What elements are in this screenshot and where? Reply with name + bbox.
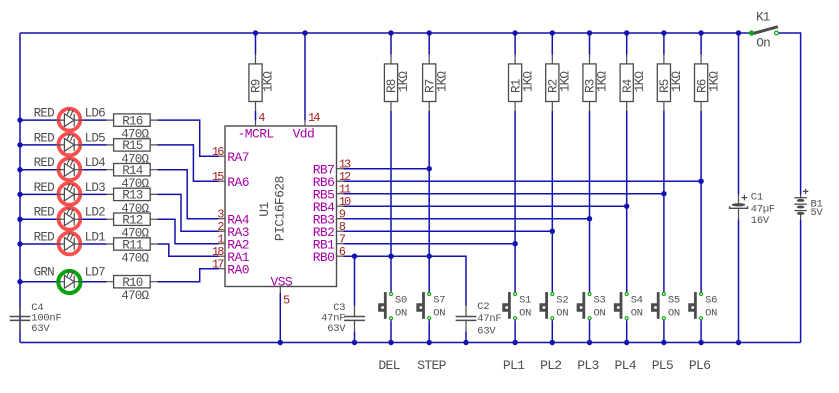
svg-text:63V: 63V: [477, 325, 496, 337]
svg-text:ON: ON: [705, 308, 717, 320]
LED LD6: [57, 108, 83, 130]
svg-text:1KΩ: 1KΩ: [521, 71, 535, 93]
svg-text:LD1: LD1: [85, 230, 106, 244]
svg-text:RED: RED: [34, 156, 55, 170]
svg-text:15: 15: [212, 170, 224, 184]
resistor R3 1K: [583, 55, 610, 111]
op IC U1 PIC16F628 body: [225, 126, 337, 287]
svg-text:VSS: VSS: [271, 274, 293, 289]
switch S3: [578, 292, 605, 320]
wire LED row LD3 to resistor R13: [83, 193, 107, 195]
svg-text:1KΩ: 1KΩ: [262, 71, 276, 93]
wire LED row LD2 left segment: [20, 218, 57, 220]
svg-text:14: 14: [308, 111, 320, 125]
svg-text:C1: C1: [751, 192, 763, 204]
svg-text:RED: RED: [34, 206, 55, 220]
svg-text:S6: S6: [705, 295, 717, 307]
svg-text:1KΩ: 1KΩ: [633, 71, 647, 93]
svg-text:1KΩ: 1KΩ: [397, 71, 411, 93]
svg-text:ON: ON: [395, 308, 407, 320]
svg-text:6: 6: [339, 245, 346, 259]
svg-text:5V: 5V: [811, 207, 824, 219]
wire below switch S3 to ground rail: [589, 320, 591, 342]
wire R16 to chip pin 16: [157, 120, 218, 156]
resistor R13 470R: [107, 188, 158, 216]
svg-text:S3: S3: [594, 295, 606, 307]
battery B1 5V: [794, 189, 823, 220]
svg-text:LD7: LD7: [85, 266, 106, 280]
svg-text:RA0: RA0: [227, 262, 249, 277]
wire R3 column: [589, 33, 591, 292]
switch K1: [749, 11, 778, 51]
svg-text:470Ω: 470Ω: [121, 251, 149, 265]
svg-text:R10: R10: [122, 276, 143, 290]
svg-text:S2: S2: [556, 295, 568, 307]
wire R1 column: [514, 33, 516, 292]
wire LED row LD4 left segment: [20, 169, 57, 171]
junction dots on top rail: [253, 30, 258, 35]
wire right rail from K1 to battery to ground: [779, 33, 801, 343]
svg-text:63V: 63V: [327, 323, 346, 335]
resistor R9 1K: [249, 55, 276, 111]
svg-text:63V: 63V: [31, 323, 50, 335]
switch S2: [541, 292, 568, 320]
svg-text:LD4: LD4: [85, 156, 106, 170]
LED LD3: [57, 183, 83, 205]
svg-text:PL4: PL4: [615, 358, 637, 373]
capacitor C3 47nF: [321, 302, 365, 335]
switch S6: [690, 292, 717, 320]
wire R8 column: [390, 33, 392, 292]
svg-text:R15: R15: [122, 139, 143, 153]
pin stubs right: [337, 168, 344, 170]
wire top +5V rail: [20, 32, 751, 34]
switch S0: [380, 292, 407, 320]
svg-text:47nF: 47nF: [477, 313, 501, 325]
wire C1 column: [738, 33, 740, 343]
resistor R16 470R: [107, 114, 158, 142]
wire R13 to chip pin 2: [157, 194, 218, 231]
svg-text:47µF: 47µF: [751, 203, 775, 215]
wire R10 to chip pin 17: [157, 269, 218, 282]
LED LD4: [57, 158, 83, 180]
svg-text:1KΩ: 1KΩ: [435, 71, 449, 93]
switch S1: [504, 292, 531, 320]
wire LED row LD2 to resistor R12: [83, 218, 107, 220]
svg-text:STEP: STEP: [417, 358, 446, 373]
wire below switch S0 to ground rail: [390, 320, 392, 342]
svg-text:RED: RED: [34, 230, 55, 244]
junction dot RB7 at R7 column: [427, 166, 432, 171]
svg-text:LD3: LD3: [85, 181, 106, 195]
wire VSS pin 5 to ground rail: [279, 293, 281, 343]
junction dots RB6..RB1 at resistor columns: [698, 179, 703, 184]
wire C3 column from RB0 net to ground: [354, 256, 356, 342]
resistor R2 1K: [546, 55, 573, 111]
svg-text:S4: S4: [631, 295, 643, 307]
svg-text:1KΩ: 1KΩ: [596, 71, 610, 93]
resistor R8 1K: [384, 55, 411, 111]
LED LD5: [57, 133, 83, 155]
svg-text:PIC16F628: PIC16F628: [273, 176, 288, 241]
wire R9 column to -MCRL pin 4: [255, 33, 257, 121]
wire net RB5 from pin 11: [343, 193, 664, 195]
wire net RB0 from pin 6 to C2: [343, 256, 466, 306]
junction dots on RB0 net: [352, 254, 357, 259]
svg-text:GRN: GRN: [34, 266, 55, 280]
resistor R15 470R: [107, 139, 158, 167]
wire below switch S5 to ground rail: [663, 320, 665, 342]
wire net RB1 from pin 7: [343, 243, 515, 245]
wire below switch S2 to ground rail: [551, 320, 553, 342]
resistor R4 1K: [620, 55, 647, 111]
junction dots on left rail (LED rows): [17, 117, 22, 122]
svg-text:RED: RED: [34, 181, 55, 195]
wire C2 column lower: [465, 331, 467, 342]
wire LED row LD1 left segment: [20, 243, 57, 245]
pin stubs left: [219, 155, 226, 157]
wire left power rail: [19, 33, 21, 343]
svg-text:S1: S1: [519, 295, 531, 307]
svg-text:R11: R11: [122, 238, 143, 252]
resistor R6 1K: [695, 55, 722, 111]
wire LED row LD6 to resistor R16: [83, 119, 107, 121]
wire below switch S7 to ground rail: [428, 320, 430, 342]
wire net RB4 from pin 10: [343, 205, 626, 207]
svg-text:PL2: PL2: [540, 358, 561, 373]
switch S5: [653, 292, 680, 320]
resistor R10 470R: [107, 276, 158, 304]
svg-text:S7: S7: [433, 295, 445, 307]
svg-text:PL6: PL6: [689, 358, 710, 373]
wire R4 column: [626, 33, 628, 292]
svg-text:16: 16: [212, 145, 224, 159]
resistor R1 1K: [509, 55, 536, 111]
resistor R14 470R: [107, 164, 158, 192]
capacitor C2 47nF: [456, 301, 502, 337]
svg-text:K1: K1: [756, 11, 770, 25]
svg-text:R12: R12: [122, 214, 143, 228]
svg-text:17: 17: [212, 258, 224, 272]
svg-text:S0: S0: [395, 295, 407, 307]
svg-text:C2: C2: [477, 301, 489, 313]
pin stub 4 -MCRL: [255, 121, 257, 127]
LED LD1: [57, 232, 83, 254]
svg-text:16V: 16V: [751, 215, 770, 227]
LED LD7: [57, 270, 83, 293]
svg-text:S5: S5: [668, 295, 680, 307]
svg-text:LD5: LD5: [85, 131, 106, 145]
wire R7 column: [428, 33, 430, 292]
svg-text:LD6: LD6: [85, 107, 106, 121]
svg-text:PL3: PL3: [577, 358, 599, 373]
wire R11 to chip pin 18: [157, 244, 218, 256]
resistor R7 1K: [423, 55, 450, 111]
wire R12 to chip pin 1: [157, 219, 218, 244]
wire net RB7 from pin 13: [343, 168, 429, 170]
svg-text:-MCRL: -MCRL: [238, 127, 274, 142]
wire LED row LD4 to resistor R14: [83, 169, 107, 171]
svg-text:R13: R13: [122, 189, 143, 203]
resistor R5 1K: [657, 55, 684, 111]
wire below switch S6 to ground rail: [700, 320, 702, 342]
pin stub 5 VSS: [279, 287, 281, 294]
svg-text:PL5: PL5: [652, 358, 674, 373]
wire LED row LD5 to resistor R15: [83, 144, 107, 146]
wire net RB6 from pin 12: [343, 180, 701, 182]
wire R6 column: [700, 33, 702, 292]
svg-text:DEL: DEL: [378, 358, 400, 373]
svg-text:1KΩ: 1KΩ: [670, 71, 684, 93]
svg-text:RA6: RA6: [227, 175, 249, 190]
svg-text:RA7: RA7: [227, 150, 249, 165]
svg-text:PL1: PL1: [503, 358, 525, 373]
svg-text:1KΩ: 1KΩ: [707, 71, 721, 93]
capacitor C1 47uF polarized: [730, 192, 775, 227]
wire LED row LD7 left segment: [20, 281, 57, 283]
wire LED row LD3 left segment: [20, 193, 57, 195]
svg-text:RED: RED: [34, 107, 55, 121]
svg-text:LD2: LD2: [85, 206, 106, 220]
svg-text:ON: ON: [433, 308, 445, 320]
svg-text:4: 4: [258, 111, 265, 125]
svg-text:RED: RED: [34, 131, 55, 145]
svg-text:5: 5: [283, 293, 290, 307]
capacitor C4 100nF: [10, 302, 62, 335]
wire R2 column: [551, 33, 553, 292]
wire below switch S4 to ground rail: [626, 320, 628, 342]
wire LED row LD6 left segment: [20, 119, 57, 121]
svg-text:ON: ON: [594, 308, 606, 320]
junction dots on bottom rail: [278, 340, 283, 345]
svg-text:ON: ON: [668, 308, 680, 320]
svg-text:R14: R14: [122, 164, 143, 178]
switch S7: [418, 292, 445, 320]
LED LD2: [57, 207, 83, 229]
wire net RB2 from pin 8: [343, 230, 552, 232]
resistor R12 470R: [107, 213, 158, 241]
svg-text:On: On: [756, 37, 770, 51]
wire R15 to chip pin 15: [157, 145, 218, 181]
svg-text:Vdd: Vdd: [293, 127, 315, 142]
svg-text:R16: R16: [122, 114, 143, 128]
svg-text:470Ω: 470Ω: [121, 289, 149, 303]
wire Vdd column pin 14: [304, 33, 306, 121]
svg-text:ON: ON: [519, 308, 531, 320]
resistor R11 470R: [107, 238, 158, 266]
wire R14 to chip pin 3: [157, 170, 218, 219]
switch S4: [615, 292, 642, 320]
wire net RB3 from pin 9: [343, 218, 589, 220]
svg-text:RB0: RB0: [313, 250, 335, 265]
svg-text:ON: ON: [556, 308, 568, 320]
wire bottom ground rail: [20, 342, 801, 344]
svg-text:U1: U1: [257, 202, 272, 217]
wire below switch S1 to ground rail: [514, 320, 516, 342]
pin stub 14 Vdd: [304, 121, 306, 127]
svg-text:ON: ON: [631, 308, 643, 320]
wire LED row LD7 to resistor R10: [83, 281, 107, 283]
wire LED row LD1 to resistor R11: [83, 243, 107, 245]
wire LED row LD5 left segment: [20, 144, 57, 146]
wire R5 column: [663, 33, 665, 292]
svg-text:1KΩ: 1KΩ: [559, 71, 573, 93]
